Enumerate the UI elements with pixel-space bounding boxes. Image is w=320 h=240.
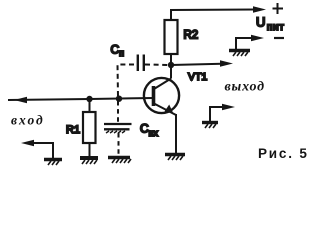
svg-text:выход: выход <box>225 80 265 95</box>
resistor R1 <box>83 112 96 143</box>
ground: minus supply terminal <box>229 51 250 57</box>
label - (minus of supply) <box>274 37 284 39</box>
node A: junction input wire / R1 top <box>86 96 92 102</box>
ground: lower input terminal <box>44 160 62 166</box>
wire: dashed lead from Cвх down to ground <box>118 133 120 155</box>
terminal arrow: -Uпит supply <box>251 35 264 41</box>
capacitor Cвх plates <box>104 124 132 133</box>
capacitor C\u043f (Cп) plates <box>138 55 144 72</box>
terminal arrow: +Uпит supply <box>253 6 266 12</box>
label + (plus of supply) <box>273 3 284 14</box>
wire: input line from left terminal to base of VT1 <box>8 98 153 100</box>
wire: collector lead up to node C <box>170 65 172 79</box>
wire: R2 top lead and supply rail to + terminal <box>171 10 255 21</box>
wire: emitter lead down to ground <box>175 114 177 154</box>
terminal arrow: input (вход) upper <box>14 97 27 103</box>
wire: output line from node C <box>171 64 222 65</box>
ground: below Cвх <box>108 158 131 164</box>
svg-text:VT1: VT1 <box>188 71 207 83</box>
node C: collector / R2 / output junction <box>168 62 174 68</box>
svg-text:R2: R2 <box>184 30 199 42</box>
ground: below R1 <box>80 158 98 164</box>
wire: dashed lead from node B down to Cвх <box>117 101 119 122</box>
wire: R2 bottom lead from node C <box>170 54 172 65</box>
node B: junction input wire / Cп / Cвх <box>116 96 122 102</box>
svg-text:Uпит: Uпит <box>256 15 285 34</box>
transistor VT1 (NPN) <box>144 78 179 115</box>
wire: R1 top lead <box>89 99 91 112</box>
ground: below emitter of VT1 <box>165 155 185 161</box>
wire: dashed lead from node B up to Cп <box>118 65 137 97</box>
wire: lower output terminal bend <box>210 107 224 121</box>
wire: lower input terminal bend <box>30 143 53 158</box>
svg-text:R1: R1 <box>66 124 80 136</box>
resistor R2 <box>165 20 178 54</box>
terminal arrow: input common <box>21 140 34 146</box>
terminal arrow: output (выход) upper <box>220 60 233 66</box>
wire: minus supply terminal bend <box>236 38 253 49</box>
wire: R1 bottom lead <box>89 143 91 157</box>
svg-text:Cвх: Cвх <box>140 122 158 139</box>
ground: lower output terminal <box>202 123 218 129</box>
svg-text:вход: вход <box>11 113 45 128</box>
svg-text:Cп: Cп <box>111 43 125 59</box>
terminal arrow: output common <box>222 104 235 110</box>
wire: dashed lead from Cп right plate to collector node <box>145 64 168 67</box>
svg-text:Рис. 5: Рис. 5 <box>258 146 309 161</box>
